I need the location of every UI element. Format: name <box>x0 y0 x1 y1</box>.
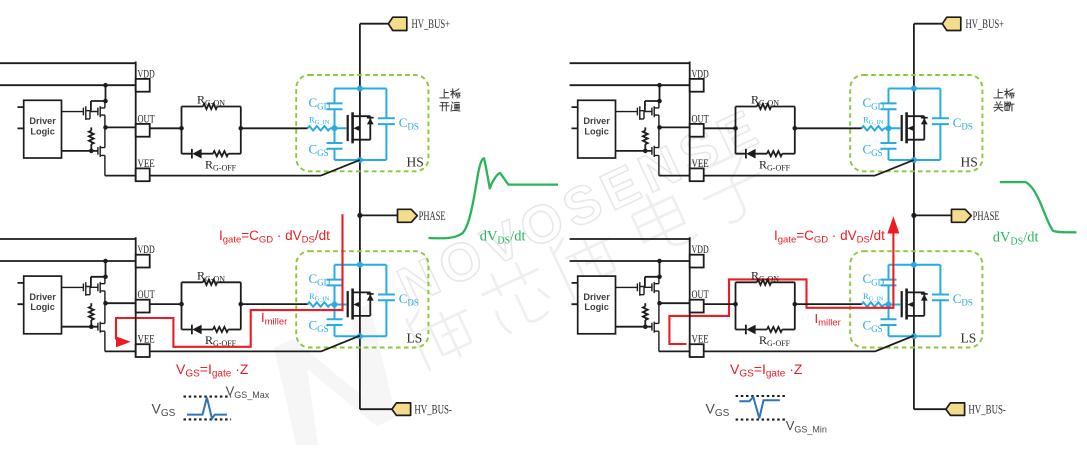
svg-text:HS: HS <box>407 154 424 169</box>
svg-text:LS: LS <box>961 330 977 345</box>
svg-text:HS: HS <box>961 154 978 169</box>
svg-text:LS: LS <box>407 330 423 345</box>
